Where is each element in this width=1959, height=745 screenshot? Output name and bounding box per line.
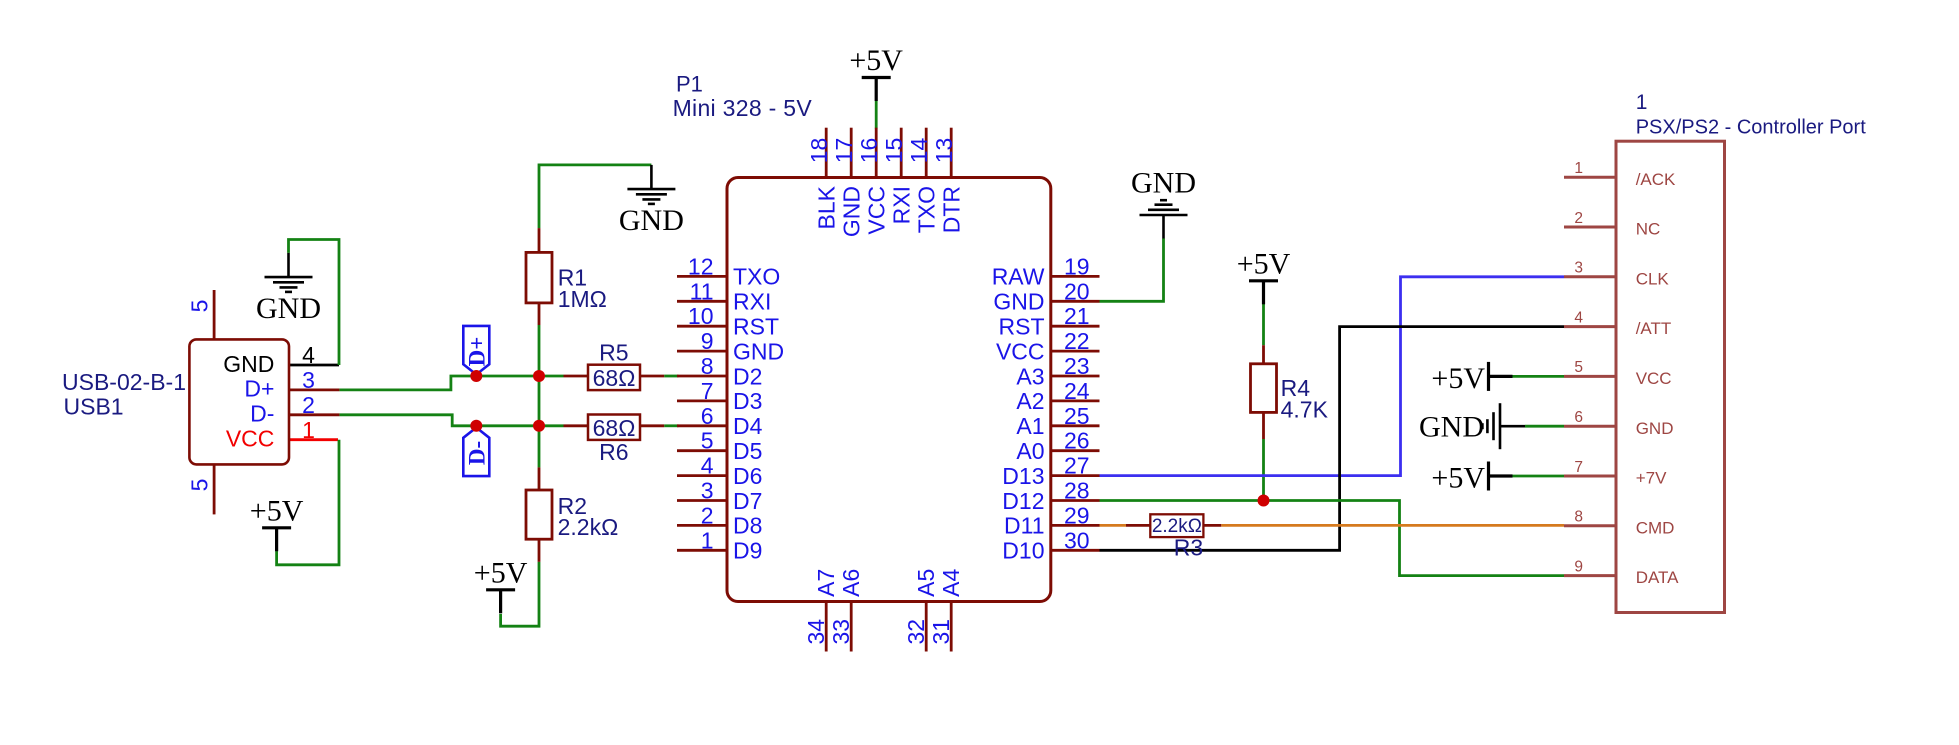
+5V symbol +5V at PSX pin 7 (1431, 462, 1512, 495)
USB1 pin 2 D- (250, 392, 339, 427)
svg-text:A4: A4 (938, 569, 964, 597)
ground symbol GND near USB (256, 253, 321, 325)
svg-text:6: 6 (701, 403, 714, 429)
wire: green IC pin 20 GND to ground symbol (1100, 239, 1164, 302)
PSX pin 1 (/ACK) (1564, 160, 1676, 189)
IC P1 left pin 11 (RXI) (677, 278, 771, 314)
IC P1 top pin 17 (GND) (831, 128, 865, 237)
svg-text:13: 13 (931, 138, 957, 164)
svg-text:D5: D5 (733, 438, 762, 464)
svg-text:TXO: TXO (914, 186, 940, 233)
wire: orange CMD net D11 (pin29) to R3 left lead (1100, 524, 1127, 527)
svg-text:/ACK: /ACK (1636, 170, 1676, 189)
svg-text:D13: D13 (1002, 463, 1044, 489)
USB1 pin 4 GND (223, 342, 315, 377)
wire: green from USB pin4 up and over to GND symbol (289, 240, 340, 366)
svg-text:GND: GND (993, 289, 1044, 315)
PSX pin 2 (NC) (1564, 210, 1660, 239)
+5V symbol +5V below R2 (474, 557, 528, 614)
junction node: D- at flag tip (470, 420, 482, 432)
svg-text:5: 5 (187, 300, 213, 313)
svg-text:8: 8 (1574, 509, 1583, 526)
svg-text:11: 11 (690, 278, 714, 304)
wire: USB pin3 D+ green with jog up to D+ net row (339, 376, 563, 390)
IC P1 right pin 29 (D11) (1004, 502, 1100, 538)
svg-text:14: 14 (906, 138, 932, 164)
IC P1 top pin 18 (BLK) (806, 128, 840, 230)
svg-text:+5V: +5V (1431, 362, 1485, 395)
svg-text:PSX/PS2 - Controller Port: PSX/PS2 - Controller Port (1636, 117, 1867, 139)
svg-text:DTR: DTR (939, 186, 965, 233)
IC P1 top pin 16 (VCC) (856, 128, 890, 235)
wire: green +5V through R4 top lead (1262, 302, 1265, 345)
wire: blue CLK net D13 (pin27) to PSX pin3 (1100, 277, 1565, 476)
svg-text:A3: A3 (1016, 363, 1044, 389)
svg-text:D7: D7 (733, 488, 762, 514)
svg-text:3: 3 (1574, 260, 1583, 277)
svg-text:2.2kΩ: 2.2kΩ (558, 514, 619, 540)
svg-text:USB1: USB1 (64, 394, 124, 420)
svg-text:A2: A2 (1016, 388, 1044, 414)
svg-text:VCC: VCC (864, 186, 890, 235)
svg-text:P1: P1 (676, 71, 703, 96)
svg-text:NC: NC (1636, 220, 1661, 239)
IC P1 right pin 28 (D12) (1002, 478, 1099, 514)
svg-text:D6: D6 (733, 463, 762, 489)
svg-text:CLK: CLK (1636, 269, 1670, 288)
resistor R3 2.2k&#937; (horizontal, value in box) (1126, 514, 1221, 560)
wire: green R6 right lead to IC pin 6 (664, 424, 678, 427)
wire: green R2 bottom to +5V symbol (501, 562, 539, 626)
resistor R5 68&#937; (horizontal, value in box) (564, 339, 665, 391)
svg-text:3: 3 (701, 478, 714, 504)
svg-text:GND: GND (1636, 419, 1674, 438)
svg-text:7: 7 (701, 378, 714, 404)
svg-text:CMD: CMD (1636, 518, 1675, 537)
svg-text:2: 2 (701, 502, 714, 528)
resistor R4 4.7K (vertical) (1251, 345, 1329, 439)
svg-text:10: 10 (688, 303, 714, 329)
+5V symbol +5V at PSX pin 5 (1431, 362, 1512, 395)
svg-text:4: 4 (302, 342, 315, 368)
svg-text:D12: D12 (1002, 488, 1044, 514)
IC P1 top pin 14 (TXO) (906, 128, 940, 234)
svg-text:7: 7 (1574, 459, 1583, 476)
junction node: D+ at R1/R2 column (533, 370, 545, 382)
wire: green GND to PSX pin6 (1525, 425, 1564, 428)
PSX pin 5 (VCC) (1564, 359, 1672, 388)
svg-text:68Ω: 68Ω (593, 415, 636, 441)
PSX pin 4 (/ATT) (1564, 309, 1671, 338)
svg-text:RAW: RAW (992, 264, 1045, 290)
wire: green R5 right lead to IC pin 8 (664, 375, 678, 378)
wire: green R4 bottom to junction on D12 net (1262, 439, 1265, 501)
net label flag D- (463, 428, 489, 477)
svg-text:1: 1 (302, 417, 315, 443)
resistor R2 2.2k&#937; (vertical) (526, 467, 618, 561)
IC P1 top pin 15 (RXI) (881, 128, 915, 225)
svg-text:16: 16 (856, 138, 882, 164)
net label flag D+ (463, 326, 489, 375)
svg-text:RST: RST (999, 314, 1045, 340)
USB1 pin 3 D+ (244, 367, 339, 402)
IC P1 right pin 30 (D10) (1002, 527, 1099, 563)
PSX pin 8 (CMD) (1564, 509, 1674, 538)
wire: USB pin4 GND to ground (black segment) (289, 364, 339, 367)
svg-text:+5V: +5V (849, 44, 903, 77)
svg-text:+5V: +5V (250, 495, 304, 528)
IC P1 right pin 19 (RAW) (992, 253, 1100, 289)
svg-text:+5V: +5V (474, 557, 528, 590)
svg-text:BLK: BLK (814, 185, 840, 229)
USB1 bottom mount pin 5 (187, 464, 215, 514)
wire: green from USB pin1 down to +5V symbol (277, 440, 339, 565)
svg-text:24: 24 (1064, 378, 1090, 404)
svg-text:32: 32 (903, 619, 929, 645)
svg-text:A6: A6 (838, 569, 864, 597)
PSX pin 7 (+7V) (1564, 459, 1667, 488)
svg-text:18: 18 (806, 138, 832, 164)
svg-text:33: 33 (828, 619, 854, 645)
svg-text:+5V: +5V (1431, 462, 1485, 495)
svg-text:8: 8 (701, 353, 714, 379)
svg-text:68Ω: 68Ω (593, 365, 636, 391)
svg-text:GND: GND (256, 292, 321, 325)
svg-text:4: 4 (1574, 309, 1583, 326)
junction node: D- at R1/R2 column (533, 420, 545, 432)
wire: green +5V to PSX pin5 VCC (1512, 375, 1564, 378)
IC P1 right pin 22 (VCC) (996, 328, 1100, 364)
IC P1 left pin 3 (D7) (677, 478, 762, 514)
svg-text:GND: GND (619, 204, 684, 237)
svg-text:A5: A5 (913, 569, 939, 597)
svg-text:5: 5 (1574, 359, 1583, 376)
IC P1 right pin 24 (A2) (1016, 378, 1099, 414)
PSX pin 3 (CLK) (1564, 260, 1669, 289)
svg-text:9: 9 (1574, 558, 1583, 575)
svg-text:4: 4 (701, 453, 714, 479)
svg-text:25: 25 (1064, 403, 1090, 429)
svg-text:D10: D10 (1002, 538, 1044, 564)
svg-text:1: 1 (1574, 160, 1583, 177)
svg-text:34: 34 (803, 619, 829, 645)
IC P1 left pin 6 (D4) (677, 403, 763, 439)
PSX pin 9 (DATA) (1564, 558, 1679, 587)
wire: green D+ junction to D- junction (column) (538, 376, 541, 426)
svg-text:5: 5 (701, 428, 714, 454)
svg-text:20: 20 (1064, 278, 1090, 304)
IC P1 left pin 9 (GND) (677, 328, 784, 364)
svg-text:3: 3 (302, 367, 315, 393)
+5V symbol +5V below USB (VCC) (250, 495, 304, 552)
svg-text:VCC: VCC (226, 426, 275, 452)
USB connector USB1 (USB-02-B-1) (62, 339, 289, 464)
IC P1 bottom pin 32 (A5) (903, 569, 939, 652)
svg-text:D4: D4 (733, 413, 763, 439)
junction node: R4 bottom on D12 net (1258, 495, 1270, 507)
svg-text:6: 6 (1574, 409, 1583, 426)
svg-text:28: 28 (1064, 478, 1090, 504)
wire: green DATA net D12 (pin28) to PSX pin9 (1100, 501, 1565, 576)
USB1 pin 1 VCC (226, 417, 315, 452)
wire: green +5V to PSX pin7 +7V (1512, 475, 1564, 478)
svg-text:GND: GND (733, 338, 784, 364)
svg-text:D-: D- (250, 401, 274, 427)
wire: orange R3 right lead to PSX pin8 (1221, 524, 1564, 527)
svg-text:1MΩ: 1MΩ (558, 286, 607, 312)
svg-text:D3: D3 (733, 388, 762, 414)
wire: R1 top green to GND symbol (top middle) (539, 165, 651, 228)
svg-text:A0: A0 (1016, 438, 1044, 464)
IC P1 left pin 12 (TXO) (677, 253, 780, 289)
svg-text:15: 15 (881, 138, 907, 164)
op-amp/IC P1 Mini 328 - 5V main body (673, 71, 1051, 601)
svg-text:D8: D8 (733, 513, 762, 539)
ground symbol GND top middle (R1) (619, 165, 684, 237)
IC P1 left pin 7 (D3) (677, 378, 762, 414)
svg-text:+5V: +5V (1237, 248, 1291, 281)
svg-text:USB-02-B-1: USB-02-B-1 (62, 369, 186, 395)
IC P1 left pin 8 (D2) (677, 353, 762, 389)
wire: black /ATT net D10 (pin30) to PSX pin4 (1100, 327, 1565, 551)
svg-text:TXO: TXO (733, 264, 780, 290)
svg-text:+7V: +7V (1636, 469, 1667, 488)
IC P1 left pin 1 (D9) (677, 527, 762, 563)
svg-text:R3: R3 (1174, 535, 1203, 561)
svg-text:17: 17 (831, 138, 857, 164)
ground symbol GND at PSX pin 6 (1419, 403, 1525, 449)
svg-text:1: 1 (1636, 91, 1648, 114)
svg-text:/ATT: /ATT (1636, 319, 1672, 338)
IC P1 right pin 26 (A0) (1016, 428, 1099, 464)
svg-text:D9: D9 (733, 538, 762, 564)
+5V symbol +5V above R4 (1237, 248, 1291, 305)
svg-text:12: 12 (688, 253, 714, 279)
IC P1 left pin 4 (D6) (677, 453, 762, 489)
IC P1 left pin 10 (RST) (677, 303, 779, 339)
svg-text:D+: D+ (465, 337, 490, 367)
IC P1 left pin 2 (D8) (677, 502, 762, 538)
svg-text:RXI: RXI (889, 186, 915, 224)
svg-text:19: 19 (1064, 253, 1090, 279)
svg-text:R5: R5 (599, 339, 628, 365)
PSX pin 6 (GND) (1564, 409, 1673, 438)
svg-text:GND: GND (1131, 167, 1196, 200)
svg-text:GND: GND (1419, 410, 1484, 443)
IC P1 right pin 25 (A1) (1016, 403, 1099, 439)
wire: USB pin1 VCC red stub wire (289, 438, 338, 441)
svg-text:23: 23 (1064, 353, 1090, 379)
wire: green +5V to IC pin 16 (875, 101, 878, 129)
ground symbol GND above IC pin 20 (1131, 167, 1196, 239)
svg-text:26: 26 (1064, 428, 1090, 454)
+5V symbol +5V above IC pin 16 (849, 44, 903, 101)
svg-text:Mini 328 - 5V: Mini 328 - 5V (673, 95, 813, 121)
svg-text:D+: D+ (244, 376, 274, 402)
wire: green R1 bottom to D+ junction (538, 325, 541, 376)
svg-text:GND: GND (839, 186, 865, 237)
svg-text:2: 2 (1574, 210, 1583, 227)
wire: green D- junction down to R2 top lead (538, 426, 541, 468)
svg-text:4.7K: 4.7K (1281, 397, 1329, 423)
resistor R6 68&#937; (horizontal, value in box) (564, 415, 665, 466)
IC P1 bottom pin 31 (A4) (928, 569, 964, 652)
IC P1 left pin 5 (D5) (677, 428, 762, 464)
svg-text:9: 9 (701, 328, 714, 354)
svg-text:GND: GND (223, 351, 274, 377)
IC P1 top pin 13 (DTR) (931, 128, 965, 234)
svg-text:5: 5 (187, 479, 213, 492)
PSX/PS2 controller port connector (1) (1616, 91, 1866, 613)
svg-text:A1: A1 (1016, 413, 1044, 439)
svg-text:31: 31 (928, 619, 954, 645)
svg-text:D11: D11 (1004, 513, 1045, 539)
IC P1 bottom pin 33 (A6) (828, 569, 864, 652)
svg-text:RST: RST (733, 314, 779, 340)
svg-text:27: 27 (1064, 453, 1090, 479)
svg-text:R6: R6 (599, 439, 628, 465)
svg-text:30: 30 (1064, 527, 1090, 553)
IC P1 right pin 20 (GND) (993, 278, 1099, 314)
svg-text:A7: A7 (813, 569, 839, 597)
wire: USB pin2 D- green with jog down to D- net row (339, 415, 563, 426)
IC P1 right pin 27 (D13) (1002, 453, 1099, 489)
IC P1 right pin 21 (RST) (999, 303, 1100, 339)
svg-text:D-: D- (465, 441, 490, 465)
svg-text:2: 2 (302, 392, 315, 418)
svg-text:DATA: DATA (1636, 568, 1679, 587)
svg-text:21: 21 (1064, 303, 1090, 329)
svg-text:RXI: RXI (733, 289, 771, 315)
resistor R1 1M&#937; (vertical) (526, 228, 607, 325)
junction node: D+ at flag tip (470, 370, 482, 382)
svg-text:22: 22 (1064, 328, 1090, 354)
IC P1 right pin 23 (A3) (1016, 353, 1099, 389)
svg-text:29: 29 (1064, 502, 1090, 528)
svg-text:1: 1 (701, 527, 714, 553)
svg-text:VCC: VCC (996, 338, 1045, 364)
USB1 top mount pin 5 (187, 290, 215, 339)
svg-text:VCC: VCC (1636, 369, 1672, 388)
svg-text:D2: D2 (733, 363, 762, 389)
IC P1 bottom pin 34 (A7) (803, 569, 839, 652)
